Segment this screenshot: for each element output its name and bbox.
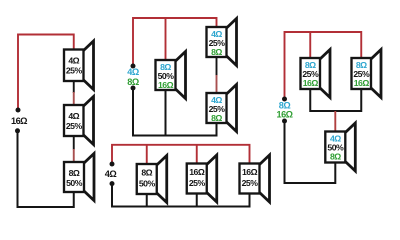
wire S2- to S3+ upper (black) bbox=[73, 136, 75, 150]
svg-text:16Ω: 16Ω bbox=[189, 167, 205, 177]
wire G3 positive red: terminal up and across top bbox=[112, 145, 250, 164]
wire G3 red branch to S7 top bbox=[146, 145, 148, 164]
node G3 negative terminal bbox=[110, 181, 115, 186]
svg-text:8Ω: 8Ω bbox=[330, 151, 341, 161]
svg-text:25%: 25% bbox=[66, 121, 83, 131]
node G2 negative terminal bbox=[131, 86, 136, 91]
svg-text:8Ω: 8Ω bbox=[211, 47, 222, 57]
wire G3 black branch from S7 bottom bbox=[146, 194, 148, 207]
wire G4 red link bus to S12 top bbox=[334, 111, 336, 132]
svg-text:16Ω: 16Ω bbox=[158, 80, 174, 90]
speaker S5 4Ω 25% 8Ω bbox=[207, 19, 237, 66]
wire G3 red branch to S8 top bbox=[196, 145, 198, 164]
node G1 negative terminal bbox=[15, 128, 20, 133]
wire G4 red branch down to S10 top bbox=[309, 32, 311, 58]
svg-text:16Ω: 16Ω bbox=[277, 110, 293, 120]
wire G3 negative black bus: terminal down and across bbox=[112, 184, 250, 207]
wire G3 black branch from S8 bottom bbox=[196, 194, 198, 207]
svg-text:4Ω: 4Ω bbox=[68, 55, 79, 65]
node G4 negative terminal bbox=[282, 119, 287, 124]
speaker S12 4Ω 50% 8Ω bbox=[325, 123, 355, 171]
speaker S7 8Ω 50% bbox=[137, 156, 167, 203]
wire S4 bottom down to negative bus bbox=[165, 90, 167, 136]
wire G2 negative black: S6 bottom across to terminal bbox=[133, 88, 217, 136]
node G2 positive terminal bbox=[131, 64, 136, 69]
svg-text:16Ω: 16Ω bbox=[242, 167, 258, 177]
svg-text:4Ω: 4Ω bbox=[68, 111, 79, 121]
svg-text:50%: 50% bbox=[139, 179, 156, 189]
speaker S2 4Ω 25% bbox=[64, 97, 94, 145]
wire S2- to S3+ lower (red) bbox=[73, 149, 75, 162]
svg-text:4Ω: 4Ω bbox=[127, 67, 139, 77]
wire G4 negative black: S12 bottom across to terminal bbox=[285, 121, 336, 183]
svg-text:16Ω: 16Ω bbox=[303, 78, 319, 88]
wire S1- to S2+ lower (red) bbox=[73, 92, 75, 105]
svg-text:16Ω: 16Ω bbox=[354, 78, 370, 88]
wire G4 black bus joining S10- and S11- bbox=[310, 89, 361, 111]
wire S5- to S6+ upper (black) bbox=[216, 57, 218, 76]
svg-text:25%: 25% bbox=[242, 178, 259, 188]
svg-text:8Ω: 8Ω bbox=[211, 113, 222, 123]
speaker S6 4Ω 25% 8Ω bbox=[207, 85, 237, 132]
svg-text:8Ω: 8Ω bbox=[69, 168, 80, 178]
svg-text:16Ω: 16Ω bbox=[11, 116, 27, 126]
wire G2 red branch down to S4 top bbox=[165, 18, 167, 60]
svg-text:8Ω: 8Ω bbox=[141, 168, 152, 178]
speaker S8 16Ω 25% bbox=[187, 155, 217, 202]
wire G1 positive red: terminal up and over to S1 top bbox=[18, 35, 74, 111]
speaker S9 16Ω 25% bbox=[240, 155, 270, 202]
speaker S4 8Ω 50% 16Ω bbox=[156, 52, 186, 99]
svg-text:50%: 50% bbox=[66, 178, 83, 188]
wire G1 negative black: S3 bottom to terminal bbox=[18, 131, 74, 207]
node G4 positive terminal bbox=[282, 97, 287, 102]
svg-text:4Ω: 4Ω bbox=[105, 169, 117, 179]
wire S5- to S6+ lower (red) bbox=[216, 75, 218, 93]
speaker S10 8Ω 25% 16Ω bbox=[301, 50, 331, 98]
wire G2 positive red: terminal up, across top, down to S5 bbox=[133, 18, 217, 66]
svg-text:8Ω: 8Ω bbox=[127, 77, 139, 87]
node G1 positive terminal bbox=[16, 108, 21, 113]
wire S1- to S2+ upper (black) bbox=[73, 81, 75, 93]
svg-text:25%: 25% bbox=[189, 178, 206, 188]
speaker S11 8Ω 25% 16Ω bbox=[352, 50, 382, 98]
svg-text:25%: 25% bbox=[66, 66, 83, 76]
wire G4 positive red: terminal up, across, down to S11 bbox=[285, 32, 362, 99]
node G3 positive terminal bbox=[110, 162, 115, 167]
speaker S1 4Ω 25% bbox=[64, 41, 94, 90]
speaker S3 8Ω 50% bbox=[64, 154, 94, 201]
